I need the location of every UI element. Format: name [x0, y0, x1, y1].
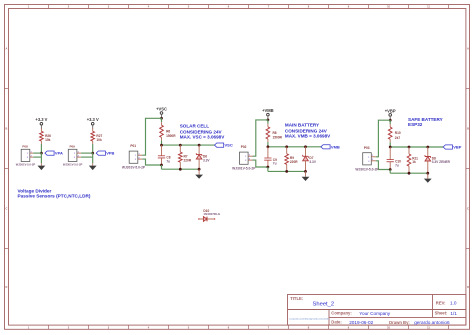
svg-text:+3.3 V: +3.3 V — [35, 117, 47, 122]
svg-text:Date:: Date: — [331, 320, 341, 325]
svg-text:VMB: VMB — [331, 144, 340, 149]
svg-text:Voltage Divider: Voltage Divider — [18, 188, 52, 193]
svg-text:R6: R6 — [166, 129, 170, 133]
svg-text:P03: P03 — [364, 146, 370, 150]
svg-text:CONSIDERING 24V: CONSIDERING 24V — [180, 130, 223, 135]
svg-text:220R: 220R — [184, 158, 192, 162]
svg-text:Sheet_2: Sheet_2 — [313, 301, 335, 307]
svg-text:MAX. VSC = 3.0698V: MAX. VSC = 3.0698V — [180, 135, 225, 140]
svg-text:2019-06-02: 2019-06-02 — [349, 320, 373, 325]
svg-text:TITLE:: TITLE: — [290, 296, 303, 301]
svg-text:R9: R9 — [290, 156, 294, 160]
svg-text:Passive Sensors (PTC,NTC,LDR): Passive Sensors (PTC,NTC,LDR) — [18, 193, 91, 198]
svg-text:1N4007RLG: 1N4007RLG — [203, 212, 221, 216]
svg-text:gerardo.antonio6: gerardo.antonio6 — [414, 320, 450, 325]
svg-text:7u: 7u — [273, 162, 277, 166]
svg-text:WJ301V-5.0-2P: WJ301V-5.0-2P — [122, 166, 146, 170]
svg-text:2k7: 2k7 — [395, 136, 401, 140]
svg-text:C9: C9 — [273, 158, 277, 162]
svg-text:MAX. VMB = 3.0698V: MAX. VMB = 3.0698V — [285, 134, 331, 139]
svg-text:1500R: 1500R — [166, 134, 176, 138]
svg-text:Your Company: Your Company — [359, 311, 390, 316]
svg-text:7u: 7u — [166, 160, 170, 164]
svg-text:R11: R11 — [412, 156, 418, 160]
svg-text:10k: 10k — [45, 138, 51, 142]
svg-text:VPB: VPB — [106, 151, 114, 156]
svg-text:SOLAR CELL: SOLAR CELL — [180, 124, 210, 129]
svg-text:P01: P01 — [130, 144, 136, 148]
svg-text:1500R: 1500R — [273, 136, 283, 140]
svg-text:VPA: VPA — [55, 151, 63, 156]
svg-text:REV:: REV: — [436, 300, 446, 305]
svg-text:10k: 10k — [96, 138, 102, 142]
svg-text:P09: P09 — [70, 144, 76, 148]
svg-text:C8: C8 — [166, 156, 170, 160]
svg-text:WJ301V-5.0-2P: WJ301V-5.0-2P — [355, 167, 379, 171]
svg-text:7u: 7u — [395, 163, 399, 167]
svg-text:220R: 220R — [290, 160, 298, 164]
svg-text:R10: R10 — [395, 131, 401, 135]
svg-text:D8: D8 — [432, 156, 436, 160]
svg-text:1k: 1k — [412, 160, 416, 164]
svg-text:+VBP: +VBP — [385, 108, 396, 113]
svg-text:P08: P08 — [22, 144, 28, 148]
svg-text:R8: R8 — [273, 131, 277, 135]
svg-text:3.3V: 3.3V — [203, 158, 210, 162]
svg-text:CONSIDERING 24V: CONSIDERING 24V — [285, 129, 328, 134]
svg-text:ESP32: ESP32 — [408, 122, 423, 127]
svg-text:Drawn By:: Drawn By: — [389, 320, 410, 325]
svg-text:3.3V: 3.3V — [309, 160, 316, 164]
svg-text:R7: R7 — [184, 155, 188, 159]
svg-text:VBP: VBP — [453, 145, 462, 150]
svg-text:Company:: Company: — [331, 310, 351, 315]
svg-text:3.3V ZENER: 3.3V ZENER — [432, 160, 451, 164]
svg-text:C10: C10 — [395, 159, 401, 163]
svg-text:D6: D6 — [203, 155, 207, 159]
svg-text:P02: P02 — [241, 145, 247, 149]
svg-text:MAIN BATTERY: MAIN BATTERY — [285, 122, 319, 127]
svg-text:SAFE BATTERY: SAFE BATTERY — [408, 117, 443, 122]
svg-text:WJ301V-5.0-2P: WJ301V-5.0-2P — [232, 167, 256, 171]
svg-text:1/1: 1/1 — [450, 311, 457, 316]
svg-text:1.0: 1.0 — [450, 300, 457, 305]
svg-text:Sheet:: Sheet: — [435, 311, 448, 316]
svg-text:+3.3 V: +3.3 V — [87, 117, 99, 122]
svg-text:VSC: VSC — [225, 143, 233, 148]
svg-text:D7: D7 — [309, 156, 313, 160]
svg-text:+VMB: +VMB — [262, 108, 274, 113]
svg-text:+VSC: +VSC — [156, 106, 167, 111]
